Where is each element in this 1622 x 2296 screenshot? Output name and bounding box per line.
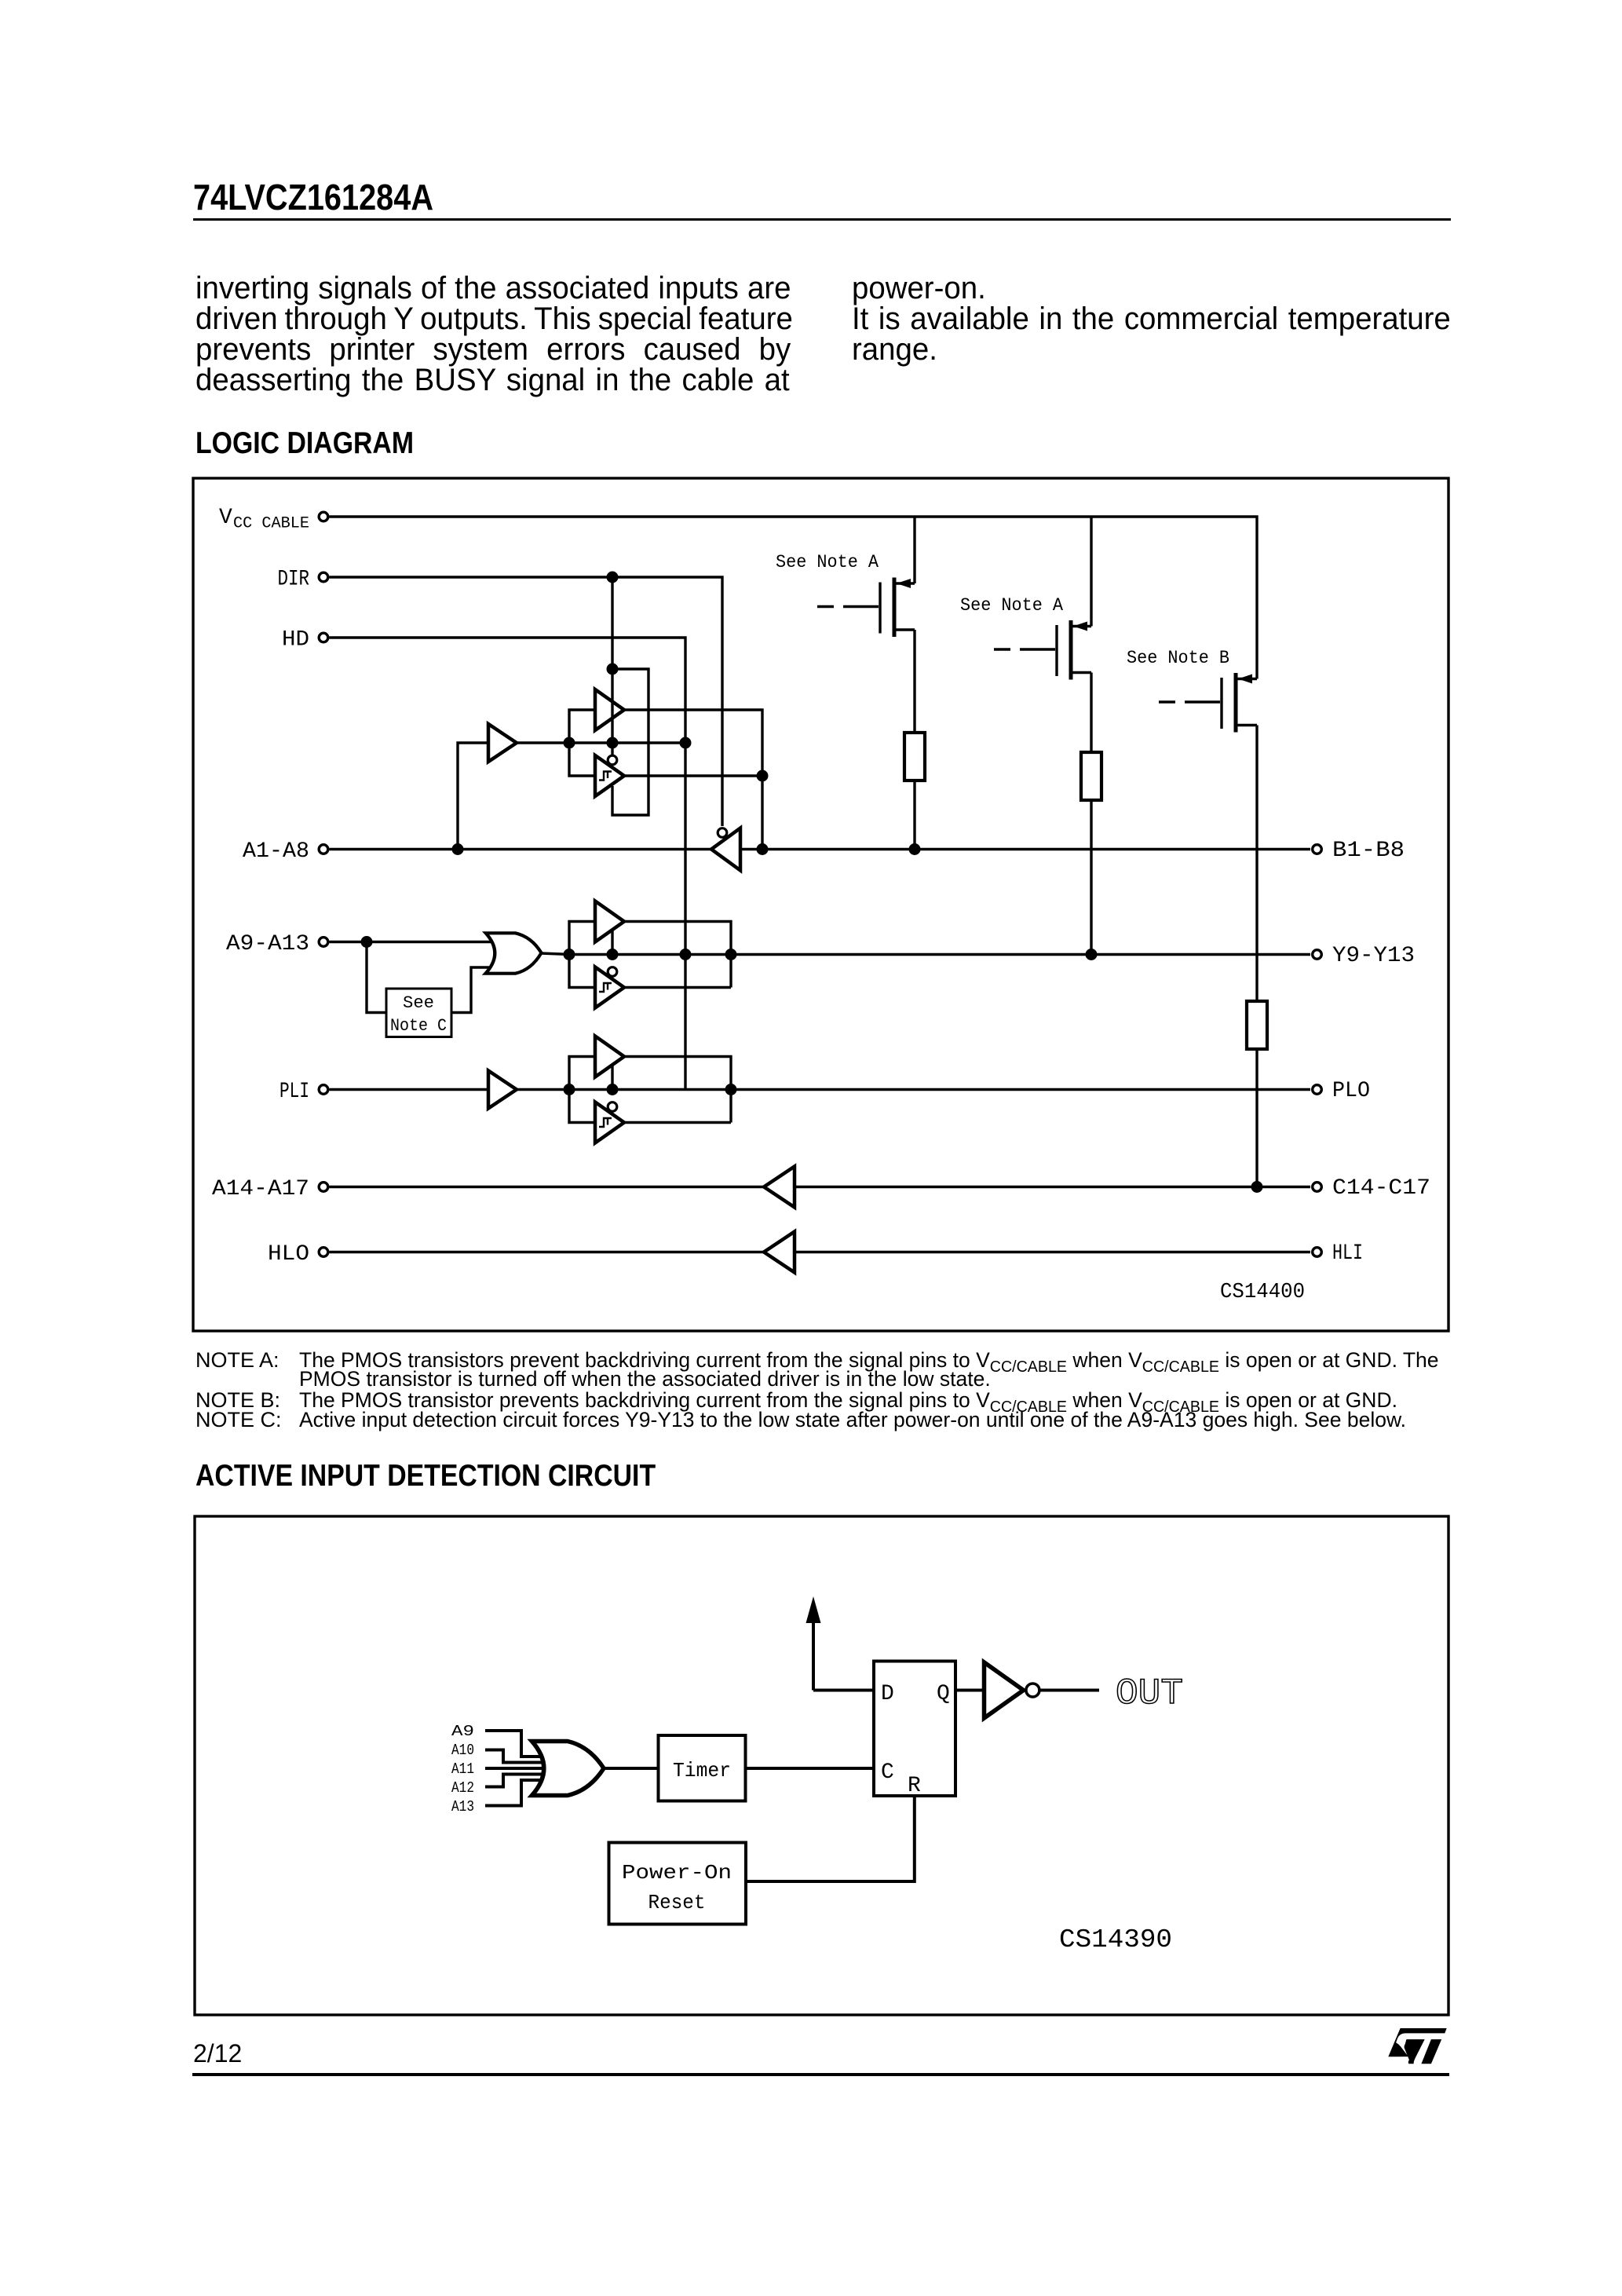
buffer cell1 down xyxy=(595,755,624,796)
block Timer xyxy=(659,1735,746,1801)
wire A11 input xyxy=(485,1767,559,1770)
node cell3 mid enable xyxy=(607,1084,619,1095)
note B xyxy=(195,1390,280,1411)
buffer cell2 down xyxy=(595,967,624,1008)
terminal A14-A17 xyxy=(319,1183,328,1192)
svg-text:A13: A13 xyxy=(451,1798,474,1815)
ST logo xyxy=(1388,2028,1446,2064)
wire A10 input xyxy=(485,1750,554,1763)
inverting buffer C14 xyxy=(764,1167,795,1208)
terminal PLO xyxy=(1313,1085,1322,1095)
node cell2 mid HD xyxy=(680,949,692,960)
wire OR out xyxy=(541,953,571,955)
node cell1 mid left xyxy=(564,737,575,749)
resistor R1 xyxy=(904,733,925,781)
svg-text:D: D xyxy=(881,1682,894,1706)
terminal HD xyxy=(319,633,328,642)
or-gate G1 xyxy=(486,933,542,973)
wire cell2 midline xyxy=(569,953,1310,956)
node R3 C join xyxy=(1251,1181,1263,1193)
terminal Vcc CABLE xyxy=(319,512,328,521)
node DIR junction xyxy=(607,572,619,583)
wire D input xyxy=(813,1689,874,1692)
bubble cell2 xyxy=(608,967,617,977)
node cell2 mid rail xyxy=(725,949,737,960)
node cell3 mid rail xyxy=(725,1084,737,1095)
page title 74LVCZ161284A xyxy=(193,179,433,215)
wire DIR enable drop xyxy=(611,577,613,743)
wire Q2 drain drop xyxy=(1090,673,1092,753)
node cell3 mid left xyxy=(564,1084,575,1095)
wire HLO line left xyxy=(330,1251,765,1253)
wire A14 line right xyxy=(795,1186,1310,1188)
wire HLO line right xyxy=(795,1251,1310,1253)
node cell1 out join xyxy=(757,770,769,782)
svg-text:OUT: OUT xyxy=(1116,1673,1183,1714)
svg-text:V: V xyxy=(219,506,232,530)
svg-text:A9: A9 xyxy=(451,1723,474,1740)
wire R1 to B line xyxy=(913,781,915,850)
terminal Y9-Y13 xyxy=(1313,950,1322,960)
node R1 B join xyxy=(909,843,921,855)
wire cell1 bracket xyxy=(569,710,595,776)
svg-text:A9-A13: A9-A13 xyxy=(226,932,309,956)
terminal A1-A8 xyxy=(319,845,328,854)
svg-text:C: C xyxy=(881,1760,894,1785)
wire Q3 drain drop xyxy=(1255,726,1258,1002)
wire cell1 down out xyxy=(623,774,762,777)
svg-text:HD: HD xyxy=(282,628,309,653)
buffer cell2 up xyxy=(595,901,624,942)
node cell2 mid left xyxy=(564,949,575,960)
resistor R2 xyxy=(1081,752,1101,800)
flip-flop U1 xyxy=(874,1662,955,1797)
svg-text:A14-A17: A14-A17 xyxy=(212,1177,309,1201)
svg-text:B1-B8: B1-B8 xyxy=(1332,839,1405,863)
wire cell2 bracket xyxy=(569,922,595,988)
block See Note C xyxy=(386,989,451,1037)
svg-text:A12: A12 xyxy=(451,1779,474,1797)
wire cell2 up out xyxy=(623,922,731,988)
svg-text:See Note B: See Note B xyxy=(1127,648,1229,668)
terminal B1-B8 xyxy=(1313,845,1322,854)
heading LOGIC DIAGRAM xyxy=(195,428,414,459)
wire to note C box xyxy=(367,942,386,1013)
terminal A9-A13 xyxy=(319,938,328,947)
svg-text:Q: Q xyxy=(937,1682,950,1706)
svg-text:C14-C17: C14-C17 xyxy=(1332,1176,1430,1201)
node cell1 mid HD xyxy=(680,737,692,749)
bubble OUT inverter xyxy=(1026,1684,1039,1697)
node A9 tap xyxy=(361,936,373,948)
wire cell1 enable loop xyxy=(612,669,648,815)
svg-text:See: See xyxy=(403,993,434,1013)
wire Q out xyxy=(955,1689,985,1692)
svg-text:R: R xyxy=(908,1774,921,1798)
wire cell3 enable xyxy=(611,1066,613,1090)
inverter OUT xyxy=(985,1662,1024,1718)
svg-text:See Note A: See Note A xyxy=(776,552,879,572)
terminal HLO xyxy=(319,1248,328,1257)
wire A9 input xyxy=(485,1731,550,1757)
wire cell2 enable xyxy=(611,930,613,955)
svg-text:Power-On: Power-On xyxy=(622,1861,732,1885)
wire Reset to R xyxy=(746,1796,915,1881)
wire A13 input xyxy=(485,1780,550,1806)
wire cell3 bracket xyxy=(569,1057,595,1123)
heading ACTIVE INPUT DETECTION CIRCUIT xyxy=(195,1461,656,1491)
footer rule xyxy=(192,2073,1449,2076)
wire OUT lead xyxy=(1040,1689,1099,1692)
wire Vcc stub to Q1 xyxy=(913,517,915,583)
terminal HLI xyxy=(1313,1248,1322,1257)
svg-text:See Note A: See Note A xyxy=(960,595,1063,616)
or-gate G2 xyxy=(532,1742,605,1796)
wire buffer to cell1 xyxy=(517,741,571,744)
transistor Q1 PMOS xyxy=(817,605,834,608)
svg-text:CS14390: CS14390 xyxy=(1059,1925,1172,1954)
wire A/B line xyxy=(330,848,1311,850)
wire cell3 down out xyxy=(623,1121,731,1124)
node cell2 mid enable xyxy=(607,949,619,960)
svg-text:PLO: PLO xyxy=(1332,1079,1370,1103)
wire HD xyxy=(330,638,686,1090)
svg-text:Reset: Reset xyxy=(648,1891,706,1914)
power arrow xyxy=(806,1596,821,1623)
detection circuit frame xyxy=(195,1516,1448,2015)
wire cell1 bubble stub xyxy=(611,743,613,755)
svg-text:Timer: Timer xyxy=(673,1759,731,1782)
wire cell1 midline xyxy=(569,741,685,744)
node cell1 mid enable xyxy=(607,737,619,749)
wire Timer to C xyxy=(746,1767,875,1770)
svg-text:CS14400: CS14400 xyxy=(1220,1281,1305,1304)
svg-text:A10: A10 xyxy=(451,1742,474,1759)
svg-text:A11: A11 xyxy=(451,1760,474,1778)
title rule xyxy=(193,218,1451,221)
buffer cell1 up xyxy=(595,689,624,730)
bubble cell1 xyxy=(608,755,617,765)
svg-text:A1-A8: A1-A8 xyxy=(243,839,309,864)
buffer PLI input xyxy=(488,1071,517,1109)
wire cell3 up out xyxy=(623,1057,731,1123)
note A line 2 xyxy=(299,1369,991,1390)
node R2 Y join xyxy=(1086,949,1098,960)
bubble B inverter xyxy=(718,828,727,838)
buffer cell3 up xyxy=(595,1036,624,1077)
svg-text:HLI: HLI xyxy=(1332,1241,1363,1266)
resistor R3 xyxy=(1247,1001,1267,1049)
wire Q1 drain drop xyxy=(913,630,915,733)
terminal DIR xyxy=(319,572,328,582)
node A tap xyxy=(452,843,464,855)
wire PLI line xyxy=(330,1088,489,1091)
wire R3 to C line xyxy=(1255,1049,1258,1187)
terminal PLI xyxy=(319,1085,328,1095)
wire Vcc rail xyxy=(330,517,1258,679)
node B rail join xyxy=(757,843,769,855)
wire OR2 to Timer xyxy=(604,1767,659,1770)
transistor Q3 PMOS xyxy=(1159,700,1175,703)
body text right column xyxy=(852,272,986,304)
wire A9 line xyxy=(330,941,499,943)
footer page number 2/12 xyxy=(193,2041,242,2066)
node enable top xyxy=(607,664,619,675)
buffer A1 input xyxy=(488,724,517,762)
body text left column xyxy=(195,272,791,304)
buffer HLI to HLO xyxy=(764,1232,795,1273)
wire PLI buffer out xyxy=(517,1088,571,1091)
block Power-On Reset xyxy=(609,1843,747,1925)
svg-text:Y9-Y13: Y9-Y13 xyxy=(1332,944,1415,968)
wire A12 input xyxy=(485,1775,554,1787)
wire A tap riser xyxy=(458,743,488,850)
svg-text:CC CABLE: CC CABLE xyxy=(233,515,309,533)
inverter B to A xyxy=(711,828,740,871)
svg-text:DIR: DIR xyxy=(278,568,310,592)
wire Vcc stub to Q2 xyxy=(1090,517,1092,627)
wire note C to OR xyxy=(451,967,502,1013)
wire DIR xyxy=(330,577,723,826)
wire A14 line left xyxy=(330,1186,765,1188)
svg-text:Note C: Note C xyxy=(390,1016,447,1036)
bubble cell3 xyxy=(608,1102,617,1112)
svg-text:HLO: HLO xyxy=(268,1242,309,1267)
wire cell1 up out xyxy=(623,710,762,850)
transistor Q2 PMOS xyxy=(994,648,1010,650)
note A line 1 xyxy=(195,1350,279,1371)
logic diagram frame xyxy=(193,478,1448,1331)
buffer cell3 down xyxy=(595,1102,624,1143)
svg-text:PLI: PLI xyxy=(279,1080,309,1104)
terminal C14-C17 xyxy=(1313,1183,1322,1192)
wire cell3 midline xyxy=(569,1088,1310,1091)
wire R2 to Y line xyxy=(1090,800,1092,955)
note C xyxy=(195,1409,282,1431)
wire cell2 down out xyxy=(623,986,731,989)
